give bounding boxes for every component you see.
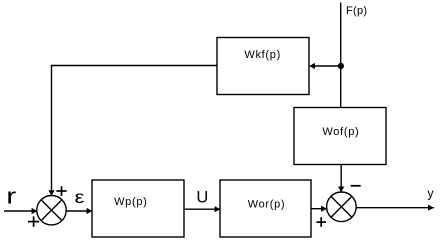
plus sign bottom-left of S2	[316, 221, 326, 223]
block Wkf(p)	[217, 38, 309, 95]
wire S1 to Wp	[66, 210, 92, 212]
svg-text:U: U	[196, 188, 208, 206]
block Wor(p)	[220, 180, 311, 237]
summer S2 circle with X	[327, 192, 357, 222]
svg-text:Wor(p): Wor(p)	[248, 198, 286, 210]
svg-text:y: y	[427, 187, 434, 201]
summer S1 circle with X	[37, 196, 66, 225]
svg-text:ε: ε	[75, 188, 85, 207]
plus sign bottom-left of S1	[28, 221, 39, 223]
wire S2 to output y	[356, 207, 434, 209]
block Wp(p)	[92, 180, 184, 237]
wire Wof output down to second summer	[340, 165, 342, 193]
svg-text:r: r	[6, 183, 16, 208]
wire F(p) vertical into Wof	[340, 3, 342, 108]
svg-text:Wof(p): Wof(p)	[322, 126, 359, 138]
wire branch from junction to Wkf	[310, 65, 341, 67]
wire r input arrow	[4, 210, 38, 212]
junction dot on F(p) line	[338, 63, 344, 69]
svg-text:Wkf(p): Wkf(p)	[244, 49, 281, 61]
plus sign top-right of S1	[56, 190, 66, 192]
wire Wkf output to first summer (left then down)	[52, 66, 218, 197]
wire Wor to second summer	[311, 208, 327, 210]
block Wof(p)	[294, 108, 386, 165]
svg-text:F(p): F(p)	[346, 5, 367, 17]
wire Wp to Wor	[184, 208, 221, 210]
minus sign top-right of S2	[351, 185, 361, 187]
svg-text:Wp(p): Wp(p)	[114, 196, 147, 208]
